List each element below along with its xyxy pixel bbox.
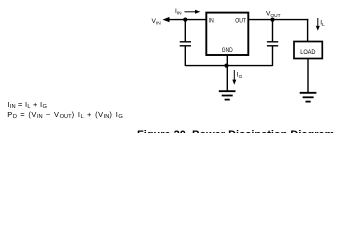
equation line 2: PD = (VIN - VOUT) IL + (VIN) IG [7, 110, 122, 119]
equation line 1: IIN = IL + IG [8, 100, 47, 109]
wire output [248, 19, 308, 21]
svg-text:OUT: OUT [235, 17, 246, 24]
junction input node [183, 18, 187, 22]
svg-text:IIN: IIN [175, 8, 182, 17]
wire load to ground [307, 59, 309, 93]
wire input [168, 19, 206, 21]
regulator U1 [206, 13, 248, 55]
current label IG [232, 70, 242, 85]
ground (load) [300, 93, 317, 102]
svg-text:IN: IN [209, 17, 214, 24]
svg-text:LOAD: LOAD [300, 49, 315, 56]
svg-text:IL: IL [320, 20, 325, 29]
wire to load [307, 19, 309, 42]
svg-text:IG: IG [237, 72, 243, 81]
input terminal arrow [163, 17, 170, 22]
svg-text:VIN: VIN [152, 18, 162, 27]
current label IL [316, 18, 325, 31]
current label IIN [175, 8, 200, 17]
ground (main) [219, 91, 236, 99]
wire GND pin lead [226, 55, 228, 92]
wire ground rail [185, 65, 272, 67]
caption: Figure 20. Power Dissipation Diagram (clipped at bottom edge) [137, 129, 334, 141]
junction GND node [224, 64, 228, 68]
capacitor CIN [180, 20, 191, 66]
svg-text:GND: GND [222, 47, 233, 54]
svg-text:VOUT: VOUT [266, 10, 281, 19]
capacitor COUT [267, 20, 278, 66]
load block [294, 42, 322, 59]
junction output node [270, 18, 274, 22]
